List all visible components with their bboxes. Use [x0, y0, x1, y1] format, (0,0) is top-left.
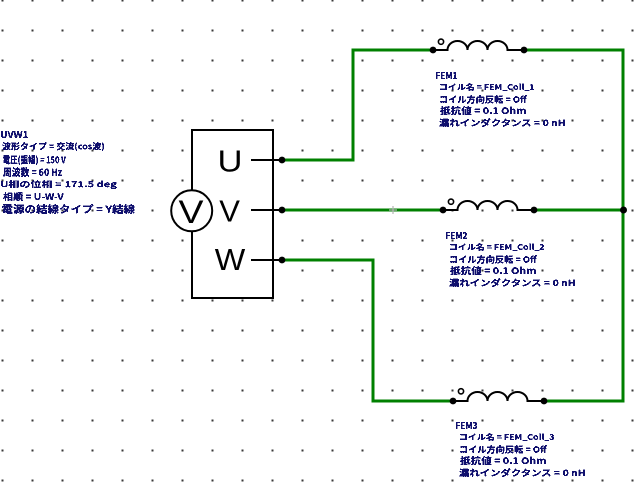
svg-text:V: V — [179, 194, 205, 230]
source UVW1 body — [192, 130, 273, 298]
wire — [372, 400, 454, 403]
wire right star vertical — [622, 49, 625, 402]
inductor FEM1 — [433, 41, 524, 50]
svg-text:W: W — [215, 242, 246, 277]
node marker on V wire — [389, 206, 397, 214]
inductor FEM2 — [443, 201, 534, 210]
FEM1 polarity dot — [438, 39, 443, 44]
node U — [279, 157, 286, 164]
pin U — [251, 159, 282, 161]
node star point — [620, 207, 627, 214]
node FEM2 right — [531, 207, 538, 214]
wire W net — [282, 259, 373, 262]
source circle V symbol — [171, 190, 212, 231]
node FEM1 right — [521, 47, 528, 54]
svg-text:V: V — [219, 194, 240, 229]
FEM2 polarity dot — [448, 199, 453, 204]
wire U net: terminal to FEM1 — [282, 159, 353, 162]
node FEM1 left — [430, 47, 437, 54]
pin W — [251, 259, 282, 261]
wire FEM2 right — [534, 209, 623, 212]
wire — [353, 49, 433, 52]
svg-text:U: U — [218, 144, 243, 179]
wire V net — [282, 209, 443, 212]
wire — [352, 49, 355, 162]
wire FEM1 right to star point — [524, 49, 625, 52]
node FEM2 left — [440, 207, 447, 214]
node W — [279, 257, 286, 264]
FEM3 polarity dot — [458, 389, 463, 394]
inductor FEM3 — [453, 392, 544, 401]
node FEM3 left — [450, 398, 457, 405]
wire — [372, 259, 375, 402]
node FEM3 right — [541, 398, 548, 405]
node V — [279, 207, 286, 214]
pin V — [251, 209, 282, 211]
wire FEM3 right — [544, 400, 625, 403]
source UVW1 parameter text — [1, 131, 28, 138]
FEM1 parameter text — [436, 72, 457, 79]
FEM3 parameter text — [456, 422, 477, 429]
FEM2 parameter text — [446, 232, 467, 239]
